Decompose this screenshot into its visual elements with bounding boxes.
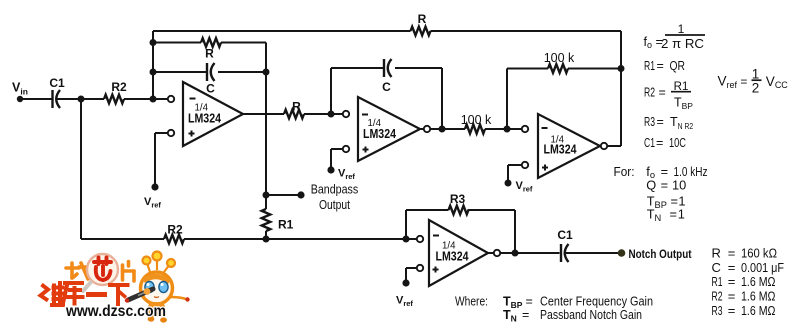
svg-text:LM324: LM324: [544, 142, 577, 156]
svg-text:1: 1: [752, 67, 760, 82]
svg-text:1.6 MΩ: 1.6 MΩ: [741, 289, 776, 304]
svg-text:=: =: [728, 303, 736, 318]
svg-text:Output: Output: [319, 198, 350, 212]
svg-text:TN R2: TN R2: [670, 115, 693, 131]
svg-text:Q: Q: [646, 178, 656, 193]
svg-text:Vref: Vref: [516, 180, 533, 194]
svg-text:R3: R3: [450, 192, 466, 206]
svg-text:For:: For:: [614, 164, 635, 179]
svg-text:Bandpass: Bandpass: [311, 183, 359, 197]
svg-text:10C: 10C: [669, 136, 686, 150]
svg-text:Center Frequency Gain: Center Frequency Gain: [540, 295, 653, 309]
svg-text:1.6 MΩ: 1.6 MΩ: [741, 274, 776, 289]
svg-text:LM324: LM324: [436, 250, 469, 264]
svg-text:R2: R2: [644, 86, 655, 100]
svg-text:=: =: [728, 246, 736, 261]
svg-text:C1: C1: [557, 228, 573, 242]
svg-text:R: R: [418, 12, 427, 26]
svg-text:R3: R3: [712, 303, 723, 318]
svg-text:VCC: VCC: [766, 74, 789, 90]
svg-text:=: =: [728, 260, 736, 275]
svg-text:=: =: [659, 86, 666, 100]
svg-text:0.001 μF: 0.001 μF: [741, 260, 784, 275]
svg-text:R1: R1: [644, 59, 655, 73]
svg-text:QR: QR: [670, 59, 686, 73]
svg-text:LM324: LM324: [363, 127, 396, 141]
svg-text:TBP: TBP: [674, 96, 693, 112]
svg-text:=: =: [522, 308, 529, 322]
svg-text:R1: R1: [712, 274, 723, 289]
svg-text:10: 10: [672, 178, 686, 193]
svg-text:1: 1: [678, 207, 685, 222]
svg-text:=: =: [526, 295, 533, 309]
svg-text:Passband Notch Gain: Passband Notch Gain: [540, 308, 642, 322]
svg-text:C1: C1: [49, 76, 65, 90]
svg-text:=: =: [657, 59, 664, 73]
svg-text:Notch Output: Notch Output: [629, 249, 692, 261]
svg-text:2: 2: [752, 81, 760, 96]
svg-text:TN: TN: [503, 308, 517, 324]
svg-text:=: =: [728, 289, 736, 304]
svg-text:Where:: Where:: [455, 295, 488, 309]
svg-text:1: 1: [678, 22, 685, 36]
svg-text:100 k: 100 k: [544, 51, 575, 65]
svg-text:R1: R1: [674, 81, 689, 93]
svg-text:C: C: [712, 260, 721, 275]
svg-text:=: =: [661, 178, 668, 193]
svg-text:2 π RC: 2 π RC: [661, 37, 704, 51]
svg-text:R2: R2: [111, 80, 127, 94]
svg-text:www.dzsc.com: www.dzsc.com: [65, 303, 166, 320]
svg-text:Vref: Vref: [396, 295, 413, 309]
svg-text:R: R: [205, 47, 214, 61]
svg-text:1.6 MΩ: 1.6 MΩ: [741, 303, 776, 318]
svg-text:C: C: [206, 82, 215, 96]
svg-text:R: R: [712, 246, 721, 261]
svg-text:=: =: [728, 274, 736, 289]
svg-text:LM324: LM324: [188, 112, 221, 126]
svg-text:fo =: fo =: [644, 35, 663, 50]
svg-text:C1: C1: [644, 136, 655, 150]
svg-text:160 kΩ: 160 kΩ: [741, 246, 777, 261]
svg-text:R2: R2: [712, 289, 723, 304]
svg-text:R1: R1: [278, 218, 294, 232]
svg-text:R: R: [292, 100, 301, 114]
svg-text:=: =: [670, 207, 677, 222]
svg-text:100 k: 100 k: [461, 113, 492, 127]
svg-text:=: =: [656, 136, 663, 150]
svg-text:C: C: [382, 80, 391, 94]
svg-text:=: =: [657, 115, 664, 129]
svg-text:Vref =: Vref =: [718, 74, 748, 91]
svg-text:R3: R3: [644, 115, 655, 129]
svg-text:R2: R2: [167, 223, 183, 237]
svg-text:Vref: Vref: [144, 196, 161, 210]
svg-text:Vin: Vin: [12, 81, 28, 97]
svg-text:Vref: Vref: [338, 168, 355, 182]
